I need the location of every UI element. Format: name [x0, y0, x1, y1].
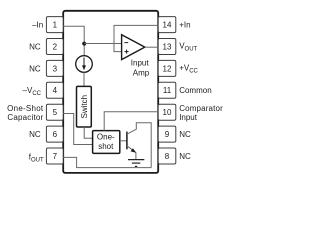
pin box 11 — [158, 82, 176, 98]
pin box 6 — [46, 126, 63, 142]
pin box 13 — [158, 39, 176, 55]
op-amp plus sign — [125, 50, 129, 54]
svg-text:–In: –In — [32, 21, 43, 30]
svg-text:NC: NC — [29, 130, 41, 139]
svg-text:One-Shot: One-Shot — [7, 104, 44, 113]
svg-text:NC: NC — [179, 130, 191, 139]
wire pin14 to op-amp plus input — [114, 25, 158, 51]
current source I1 — [76, 56, 93, 73]
svg-text:–VCC: –VCC — [23, 86, 42, 97]
wire switch to one-shot — [84, 127, 92, 138]
node A junction dot — [82, 42, 86, 46]
pin box 5 — [46, 104, 63, 120]
pin box 3 — [46, 60, 63, 76]
wire node A to op-amp minus input — [84, 43, 121, 45]
svg-text:NC: NC — [29, 65, 41, 74]
svg-text:10: 10 — [163, 108, 172, 117]
pin box 7 — [46, 148, 63, 164]
svg-text:shot: shot — [98, 142, 114, 151]
svg-text:One-: One- — [97, 132, 115, 141]
wire one-shot to pin10 comparator input — [104, 112, 158, 131]
pin box 2 — [46, 39, 63, 55]
svg-text:8: 8 — [165, 152, 170, 161]
transistor Q1 base bar — [126, 132, 128, 150]
svg-text:13: 13 — [163, 42, 172, 51]
pin box 9 — [158, 126, 176, 142]
svg-text:14: 14 — [163, 21, 172, 30]
pin box 12 — [158, 60, 176, 76]
svg-text:fOUT: fOUT — [29, 152, 44, 163]
pin box 10 — [158, 104, 176, 120]
svg-text:9: 9 — [165, 130, 170, 139]
wire pin7 fout to collector — [63, 157, 151, 167]
svg-text:7: 7 — [53, 152, 58, 161]
wire op-amp output to pin13 — [145, 46, 158, 48]
wire pin1 to node A — [63, 26, 84, 56]
svg-text:+VCC: +VCC — [179, 63, 198, 74]
transistor Q1 emitter arrow — [131, 148, 137, 153]
transistor Q1 emitter — [127, 146, 136, 159]
svg-text:Common: Common — [179, 86, 211, 95]
wire current source to switch — [83, 72, 85, 86]
pin box 1 — [46, 17, 63, 33]
svg-text:Capacitor: Capacitor — [7, 113, 43, 122]
wire one-shot to transistor base — [120, 140, 127, 142]
svg-text:4: 4 — [53, 86, 58, 95]
op-amp U2 Input Amp — [122, 35, 145, 60]
IC body U1 — [63, 11, 158, 173]
svg-text:VOUT: VOUT — [179, 41, 197, 52]
svg-text:11: 11 — [163, 86, 172, 95]
svg-text:Input: Input — [131, 59, 150, 68]
transistor Q1 collector — [127, 123, 151, 168]
svg-text:Amp: Amp — [133, 69, 150, 78]
svg-text:NC: NC — [29, 43, 41, 52]
svg-text:1: 1 — [53, 21, 58, 30]
svg-text:3: 3 — [53, 64, 58, 73]
ground — [128, 159, 144, 161]
svg-text:6: 6 — [53, 130, 58, 139]
svg-text:Switch: Switch — [80, 95, 89, 119]
svg-text:NC: NC — [179, 152, 191, 161]
current source arrow — [83, 58, 85, 67]
one-shot block U3 — [93, 131, 120, 154]
svg-text:5: 5 — [53, 108, 58, 117]
op-amp minus sign — [124, 42, 128, 44]
pin box 4 — [46, 82, 63, 98]
wire pin5 to one-shot — [63, 114, 92, 145]
svg-text:+In: +In — [179, 21, 190, 30]
svg-text:Comparator: Comparator — [179, 104, 223, 113]
svg-text:Input: Input — [179, 113, 198, 122]
svg-text:2: 2 — [53, 42, 58, 51]
svg-text:12: 12 — [163, 64, 172, 73]
pin box 8 — [158, 148, 176, 164]
switch block S1 — [77, 86, 92, 127]
pin box 14 — [158, 17, 176, 33]
